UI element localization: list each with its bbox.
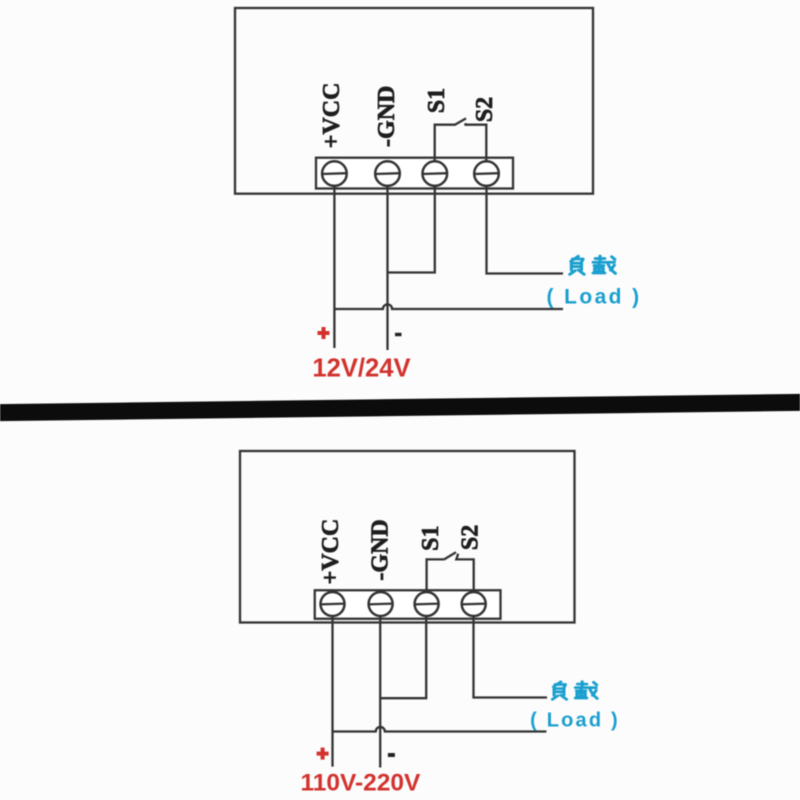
wire from +VCC down (bottom) (331, 616, 333, 767)
svg-text:S1: S1 (418, 526, 444, 551)
plus symbol (top) (318, 327, 330, 339)
wire from -GND down (top) (386, 185, 388, 350)
minus symbol (top) (395, 333, 402, 336)
wire from S2 down and right to load (bottom) (474, 616, 548, 698)
wire from S2 down and right to load (top) (487, 185, 564, 274)
svg-text:S1: S1 (424, 88, 450, 113)
screw terminal 4 S2 (top) (474, 161, 500, 186)
svg-text:-GND: -GND (374, 86, 400, 147)
svg-text:( Load ): ( Load ) (530, 709, 620, 731)
svg-text:+VCC: +VCC (319, 83, 345, 149)
load label chinese (top) (570, 256, 616, 274)
separator bar (0, 394, 800, 421)
terminal strip (bottom) (315, 590, 501, 619)
terminal strip (top) (316, 158, 513, 189)
switch contact between S1 and S2 (top) (435, 125, 455, 162)
switch contact between S1 and S2 (bottom) (427, 559, 444, 592)
svg-text:S2: S2 (458, 525, 484, 550)
controller box (bottom) (240, 451, 575, 623)
svg-text:-GND: -GND (368, 519, 394, 580)
wire from -GND down (bottom) (379, 616, 381, 768)
load return wire with hop over -GND (bottom) (333, 727, 547, 732)
screw terminal 4 S2 (bottom) (461, 592, 486, 616)
controller box (top) (235, 8, 593, 194)
wire from S1 down and left (bottom) (380, 616, 426, 698)
wire from +VCC down (top) (333, 185, 335, 348)
screw terminal 3 S1 (top) (422, 161, 448, 186)
svg-text:+VCC: +VCC (318, 519, 344, 585)
screw terminal 2 -GND (top) (375, 161, 401, 186)
screw terminal 1 +VCC (top) (322, 161, 348, 186)
wire from S1 down and left (top) (388, 185, 435, 273)
svg-text:( Load ): ( Load ) (546, 285, 641, 308)
screw terminal 2 -GND (bottom) (368, 592, 393, 616)
load return wire with hop over -GND (top) (334, 304, 563, 309)
load label chinese (bottom) (553, 682, 598, 700)
plus symbol (bottom) (317, 748, 329, 760)
minus symbol (bottom) (388, 753, 395, 757)
svg-text:12V/24V: 12V/24V (312, 355, 410, 383)
screw terminal 1 +VCC (bottom) (320, 592, 345, 616)
svg-text:S2: S2 (472, 97, 498, 122)
screw terminal 3 S1 (bottom) (414, 592, 439, 616)
svg-text:110V-220V: 110V-220V (300, 770, 421, 797)
